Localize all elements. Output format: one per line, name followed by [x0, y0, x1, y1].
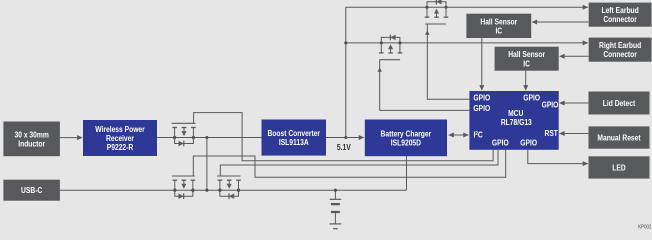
svg-text:LED: LED — [612, 163, 626, 173]
svg-text:ISL9205D: ISL9205D — [391, 138, 422, 148]
svg-text:GPIO: GPIO — [542, 100, 559, 110]
svg-text:IC: IC — [495, 26, 502, 36]
svg-text:Connector: Connector — [603, 49, 637, 59]
svg-text:GPIO: GPIO — [473, 103, 490, 113]
svg-text:RL78/G13: RL78/G13 — [501, 117, 532, 127]
svg-text:I2C: I2C — [474, 130, 484, 140]
svg-text:GPIO: GPIO — [520, 138, 537, 148]
svg-text:P9222-R: P9222-R — [107, 142, 134, 152]
svg-text:5.1V: 5.1V — [337, 142, 352, 152]
svg-text:IC: IC — [523, 59, 530, 69]
svg-text:RST: RST — [544, 128, 558, 138]
svg-text:Manual Reset: Manual Reset — [597, 133, 641, 143]
svg-text:ISL9113A: ISL9113A — [279, 137, 309, 147]
svg-text:GPIO: GPIO — [473, 93, 490, 103]
svg-text:GPIO: GPIO — [523, 93, 540, 103]
svg-text:KP002: KP002 — [638, 224, 652, 231]
svg-text:Inductor: Inductor — [18, 139, 45, 149]
svg-text:USB-C: USB-C — [21, 185, 43, 195]
svg-text:Lid Detect: Lid Detect — [603, 98, 636, 108]
svg-text:Connector: Connector — [603, 14, 637, 24]
svg-text:GPIO: GPIO — [492, 138, 509, 148]
